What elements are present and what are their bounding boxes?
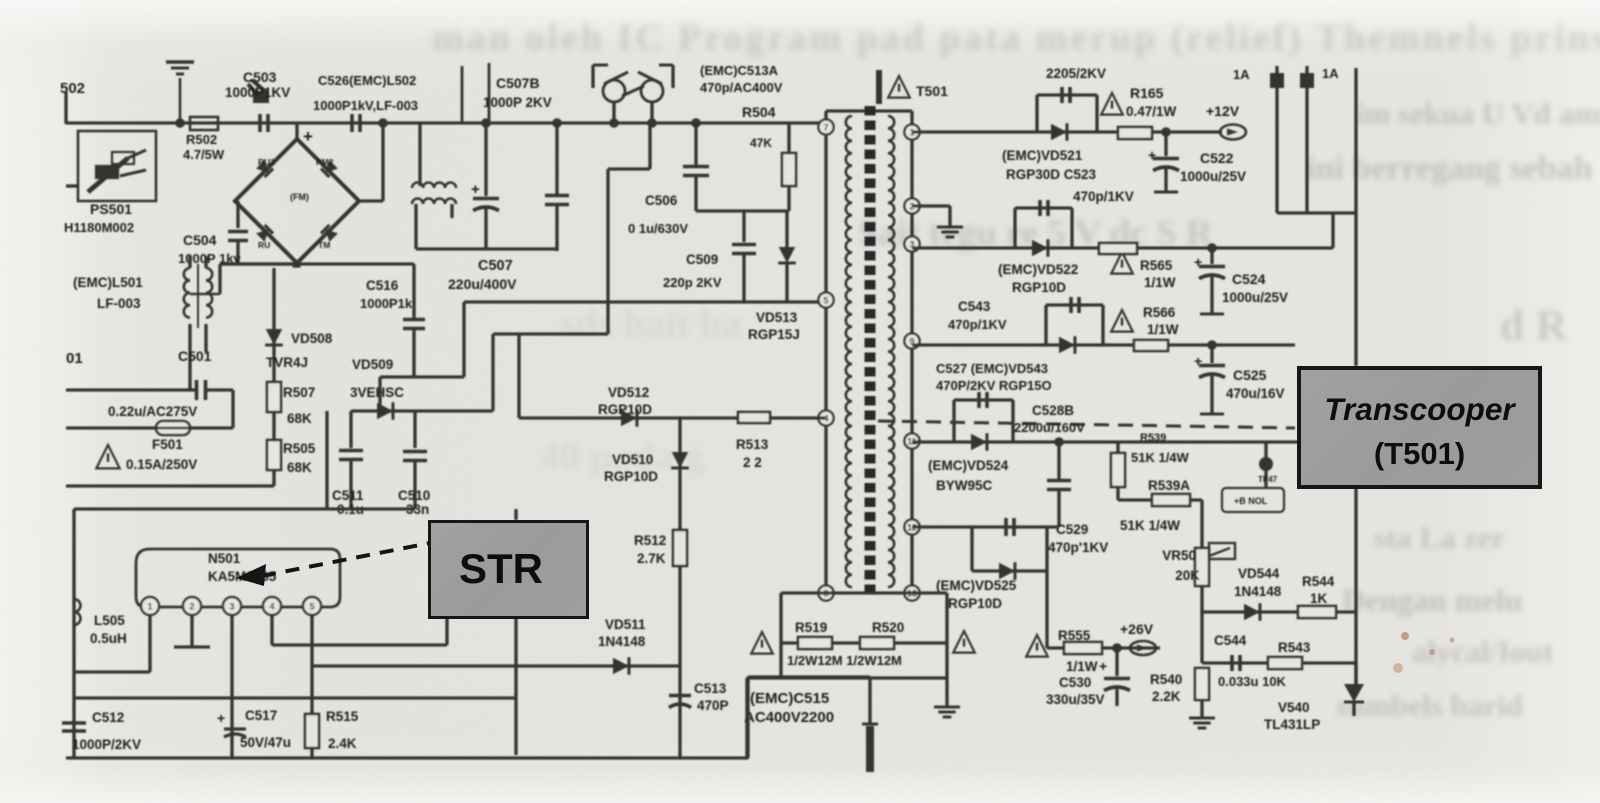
- diode VD521: [1051, 124, 1067, 141]
- wire tick above rail B: [488, 63, 491, 123]
- wire pads bottom rail: [1277, 211, 1356, 214]
- junction bridge right: [378, 118, 388, 128]
- resistor R515: [305, 714, 319, 748]
- capacitor C506: [683, 118, 709, 211]
- wire VD508 column: [272, 268, 275, 486]
- wire L501 right leg down: [204, 324, 207, 352]
- junction C524: [1207, 243, 1217, 253]
- wire VD511 row: [312, 664, 680, 667]
- warning triangle R566: [1111, 310, 1133, 332]
- resistor R512: [673, 530, 687, 566]
- wire under STR box: [514, 509, 517, 755]
- wire VD544 row: [1202, 610, 1356, 613]
- capacitor C507: [471, 118, 499, 249]
- wire mains stub: [64, 92, 67, 124]
- callout box Transcooper (T501): [1297, 366, 1542, 489]
- capacitor C527 loop: [954, 392, 1013, 442]
- capacitor C515: [862, 678, 878, 772]
- callout dashed line T501: [878, 421, 1295, 428]
- capacitor C509: [732, 211, 756, 302]
- resistor R504: [782, 123, 796, 211]
- capacitor C543a loop: [1015, 200, 1072, 248]
- warning triangle T501: [888, 76, 910, 98]
- T501 primary pin node y300: [818, 292, 833, 307]
- warning triangle F501: [96, 445, 119, 468]
- N501 pin 4: [263, 597, 281, 615]
- wire bridge minus to C516: [220, 262, 414, 265]
- capacitor C524: [1194, 248, 1225, 314]
- test point TP47: [1222, 442, 1284, 512]
- wire R555 row: [1047, 646, 1160, 649]
- resistor R165: [1118, 127, 1152, 139]
- resistor R513: [738, 412, 770, 423]
- capacitor C504: [228, 201, 248, 264]
- resistor R544: [1298, 606, 1336, 618]
- terminal +12V: [1220, 125, 1246, 140]
- capacitor C511: [339, 411, 363, 509]
- wire bridge minus row: [220, 263, 297, 294]
- junction conn legs: [609, 118, 619, 128]
- wire row3 to bus: [1331, 213, 1334, 248]
- wire stair v2: [491, 334, 494, 411]
- diode VD512: [621, 410, 637, 427]
- wire pin4: [272, 615, 447, 645]
- capacitor C523 loop: [1037, 87, 1097, 132]
- wire sec row3: [912, 246, 1333, 249]
- T501 secondary pin node y206: [904, 198, 919, 213]
- diode VD509: [377, 403, 393, 420]
- bridge rectifier VD501-VD504: [235, 139, 359, 263]
- bleed-through text from reverse page: [432, 16, 1600, 60]
- T501 secondary pin node y132: [904, 124, 919, 139]
- wire small col: [325, 411, 328, 509]
- wire VD525 down: [1045, 571, 1048, 648]
- diode VD511: [613, 658, 629, 675]
- wire pin5 column: [310, 615, 313, 758]
- diode VD513: [778, 211, 796, 302]
- junction C525: [1207, 340, 1217, 350]
- diode VD510: [672, 452, 689, 468]
- capacitor C516: [403, 264, 425, 377]
- inductor L505: [74, 599, 81, 625]
- resistor R555: [1064, 642, 1102, 654]
- resistor R566: [1134, 340, 1168, 351]
- T501 secondary pin node y441: [904, 433, 919, 448]
- T501 primary pin node y127: [818, 119, 833, 134]
- capacitor C525: [1194, 345, 1225, 414]
- wire bottom rail 2: [66, 756, 748, 759]
- resistor R539A: [1152, 494, 1190, 506]
- capacitor C530: [1099, 648, 1130, 706]
- wire C507 bottom row: [416, 247, 557, 250]
- wire stair h1: [380, 375, 464, 378]
- wire low rail: [74, 507, 415, 510]
- resistor R502: [190, 117, 218, 130]
- wire into PS501: [66, 184, 78, 187]
- pad terminal 2: [1301, 66, 1313, 213]
- callout box STR: [428, 520, 589, 619]
- capacitor C501: [195, 380, 199, 400]
- diode VD524: [971, 434, 987, 451]
- N501 pin 1: [141, 597, 159, 615]
- rust stain spots: [1401, 632, 1409, 640]
- capacitor C513: [669, 694, 691, 698]
- N501 pin 5: [303, 597, 321, 615]
- wire bottom rail 1: [74, 696, 516, 699]
- wire R539A row: [1118, 498, 1202, 501]
- wire VD509 row: [351, 409, 493, 412]
- wire right bus lower: [1354, 488, 1357, 690]
- diode VD522: [1032, 240, 1048, 257]
- resistor R505: [267, 440, 281, 470]
- warning triangle R565: [1111, 252, 1133, 274]
- pad terminal 1: [1271, 66, 1283, 213]
- wire sec row2: [912, 206, 950, 227]
- pot VR50: [1195, 543, 1235, 586]
- terminal +26V: [1130, 641, 1156, 655]
- wire C501 row left: [66, 388, 196, 391]
- capacitor C507B body: [545, 118, 569, 251]
- wire snubber to C515: [745, 678, 748, 759]
- warning triangle R555row1: [953, 631, 975, 653]
- earth ground top-left: [166, 62, 194, 123]
- capacitor C529: [1047, 437, 1071, 527]
- paper noise texture: [0, 0, 1, 1]
- N501 pin 2: [183, 597, 201, 615]
- wire right bus vertical: [1354, 68, 1357, 366]
- zener VD508: [266, 329, 283, 345]
- T501 secondary pin node y244: [904, 236, 919, 251]
- wire pin3 column: [230, 615, 233, 758]
- wire snubber box: [747, 593, 947, 678]
- wire L501 left leg down: [188, 324, 191, 390]
- N501 pin 3: [223, 597, 241, 615]
- T501 secondary pin node y527: [904, 519, 919, 534]
- ground R540: [1189, 717, 1215, 720]
- wire Z vertical: [608, 123, 650, 334]
- resistor R543: [1268, 657, 1302, 669]
- wire bottom-left return: [66, 484, 274, 487]
- capacitor C512: [62, 723, 86, 731]
- wire C501 row right: [206, 390, 233, 428]
- ground pin2: [174, 615, 210, 647]
- T501 primary pin node y593: [818, 585, 833, 600]
- warning triangle R165: [1101, 93, 1123, 115]
- IC N501 body: [136, 549, 340, 607]
- shunt reg V540: [1344, 663, 1364, 716]
- capacitor C510: [403, 411, 427, 509]
- mains plug mini icon: [248, 80, 268, 102]
- spark-gap connector: [593, 65, 673, 102]
- resistor R520: [860, 637, 894, 649]
- wire C506-R504 bottom: [696, 209, 789, 212]
- capacitor C526: [350, 114, 354, 132]
- resistor R540: [1195, 668, 1209, 718]
- warning triangle R555row2: [1026, 635, 1048, 657]
- inductor L502: [412, 123, 456, 249]
- T501 polarity bar: [876, 70, 882, 104]
- wire stair v3: [517, 334, 520, 418]
- resistor R519: [798, 637, 832, 649]
- wire VD510 column: [678, 418, 681, 758]
- T501 secondary pin node y593: [904, 585, 919, 600]
- wire sec row1: [912, 130, 1222, 133]
- wire sec row4: [912, 343, 1295, 346]
- wire C507 row to transformer: [464, 300, 826, 303]
- resistor 51K upper: [1111, 442, 1125, 500]
- wire bridge right vertex up: [359, 123, 383, 201]
- T501 primary pin node y418: [818, 410, 833, 425]
- diode VD544: [1244, 604, 1260, 621]
- PS501 plug symbol: [88, 150, 146, 192]
- wire C544 row: [1202, 661, 1356, 664]
- capacitor C522: [1148, 132, 1179, 192]
- ground snubber: [934, 678, 960, 717]
- wire tick above rail A: [461, 66, 464, 123]
- T501 secondary pin node y341: [904, 333, 919, 348]
- capacitor C517: [217, 710, 246, 737]
- diode VD525 loop: [972, 527, 1047, 580]
- capacitor C544: [1230, 655, 1234, 671]
- capacitor C503: [258, 114, 262, 132]
- inductor L501: [184, 256, 220, 328]
- resistor R565: [1099, 243, 1137, 254]
- capacitor C543 loop: [1046, 297, 1103, 345]
- resistor R507: [267, 382, 281, 412]
- switch-plug PS501 box: [78, 131, 156, 201]
- warning triangle snubber: [751, 632, 773, 654]
- wire left low column: [72, 509, 75, 758]
- wire stair v1: [462, 302, 465, 377]
- wire pin1: [74, 615, 150, 672]
- capacitor on row6: [1004, 518, 1008, 536]
- junction top rail at ground: [175, 118, 185, 128]
- fuse F501: [150, 421, 196, 435]
- wire VD512 row: [519, 416, 826, 419]
- transformer T501 windings and core: [826, 106, 912, 594]
- wire stub VD509 left: [378, 377, 381, 411]
- wire bridge top to rail: [295, 123, 298, 140]
- wire C515 top: [748, 677, 870, 758]
- wire stair h2: [493, 332, 608, 335]
- wire main top rail: [66, 121, 826, 124]
- junction C530: [1112, 643, 1122, 653]
- ground sec row2: [937, 226, 963, 229]
- diode VD543: [1059, 337, 1075, 354]
- wire connector legs: [614, 102, 652, 123]
- junction C522: [1161, 127, 1171, 137]
- wire F501 row: [66, 426, 233, 429]
- wire VR50 column: [1200, 500, 1203, 663]
- wire sec row6: [912, 525, 1059, 528]
- wire sec row5: [912, 440, 1356, 443]
